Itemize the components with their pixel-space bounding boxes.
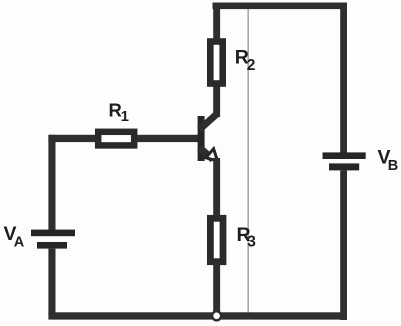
wire R1-to-base bbox=[137, 135, 198, 142]
wire top rail bbox=[213, 3, 348, 10]
battery VB bbox=[323, 152, 366, 170]
wire left rail upper bbox=[48, 135, 55, 230]
label R1 bbox=[109, 99, 129, 125]
svg-text:1: 1 bbox=[121, 108, 129, 125]
wire left rail lower bbox=[48, 249, 55, 315]
svg-text:A: A bbox=[14, 235, 25, 251]
node junction bbox=[212, 311, 221, 320]
transistor Q1 bbox=[198, 114, 218, 161]
label R3 bbox=[237, 224, 257, 251]
svg-text:2: 2 bbox=[247, 57, 256, 74]
svg-text:3: 3 bbox=[247, 234, 256, 251]
wire right rail lower bbox=[340, 170, 347, 320]
label R2 bbox=[235, 47, 256, 75]
label VA bbox=[4, 223, 25, 251]
wire R2-to-top bbox=[213, 5, 220, 39]
battery VA bbox=[31, 230, 75, 249]
resistor R2 bbox=[210, 42, 222, 84]
resistor R3 bbox=[210, 218, 223, 261]
wire R3-to-node bbox=[213, 262, 220, 314]
resistor R1 bbox=[98, 132, 134, 146]
wire collector-to-R2 bbox=[213, 86, 220, 117]
wire emitter-to-R3 bbox=[213, 158, 220, 216]
wire VA-to-R1 bbox=[48, 135, 95, 142]
wire bottom rail bbox=[48, 312, 347, 319]
wire right rail upper bbox=[340, 3, 347, 154]
label VB bbox=[378, 147, 399, 175]
scan fold line bbox=[247, 9, 249, 313]
svg-text:B: B bbox=[388, 158, 398, 174]
